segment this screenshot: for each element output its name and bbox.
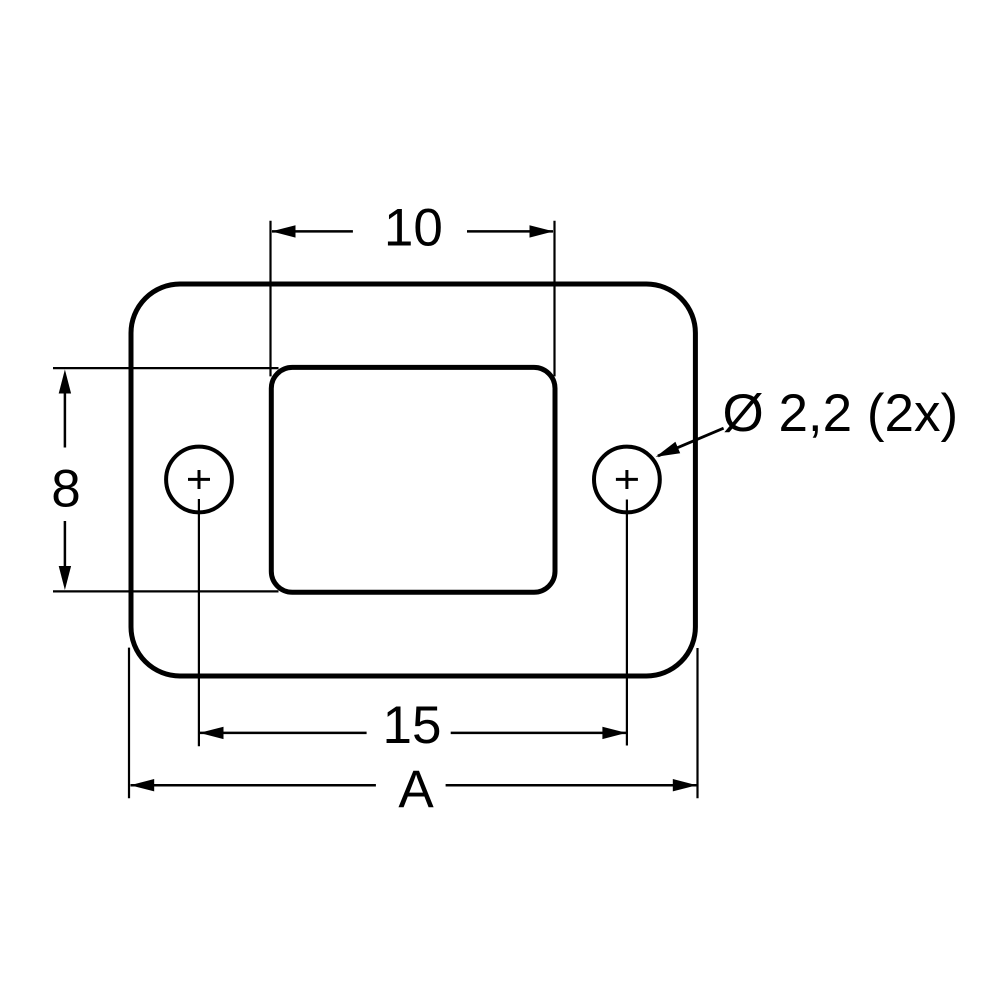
dim 15 extension line from right hole [626,500,628,746]
hole left circle [166,447,232,513]
dim 10 extension line left [269,221,271,377]
dim 10 dimension line left segment [272,230,353,233]
dim 10 extension line right [553,221,555,377]
dim 15 dimension line left segment [200,732,367,735]
outer plate outline [131,284,695,676]
svg-text:8: 8 [51,460,80,519]
dim 8 dimension line upper segment [64,392,67,448]
dim 8 extension line top [53,367,279,369]
dim 15 arrowhead left [200,727,224,739]
inner cutout outline [271,367,555,592]
dim A dimension line left segment [131,784,376,787]
dim 8 dimension line lower segment [64,521,67,567]
dim 10 dimension line right segment [467,230,553,233]
dim 8 arrowhead down [59,566,71,590]
dim 8 arrowhead up [59,370,71,394]
hole left center cross [188,470,210,489]
dim A dimension line right segment [446,784,697,787]
hole right center cross [616,470,638,489]
dim 10 arrowhead left [272,225,296,237]
dim 10 arrowhead right [530,225,554,237]
dim A extension line left [128,648,130,799]
dim 15 extension line from left hole [198,499,200,746]
svg-text:15: 15 [383,696,442,755]
hole diameter leader line [658,428,724,456]
svg-text:10: 10 [384,198,443,257]
dim 8 extension line bottom [53,590,279,592]
hole diameter leader arrowhead [656,442,681,457]
dim A arrowhead left [130,779,154,791]
hole right circle [594,447,660,513]
svg-text:A: A [398,760,434,819]
dim A extension line right [696,648,698,798]
dim 15 arrowhead right [602,727,626,739]
dim 15 dimension line right segment [451,732,626,735]
svg-text:Ø 2,2 (2x): Ø 2,2 (2x) [723,384,959,443]
dim A arrowhead right [673,779,697,791]
